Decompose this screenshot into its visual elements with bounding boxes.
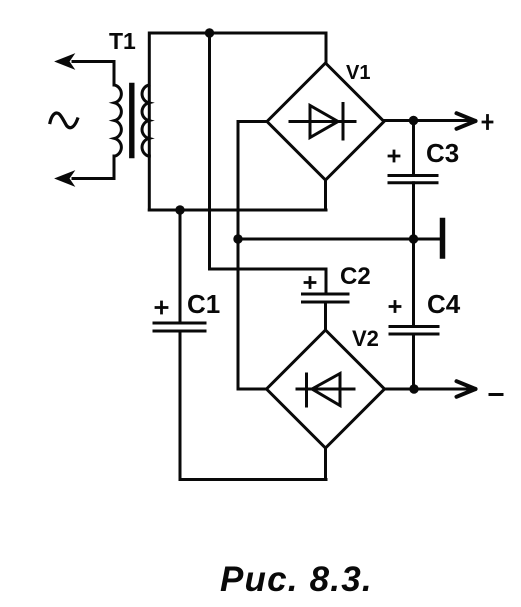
wire C1 to bottom rail xyxy=(180,331,326,480)
C1 polarity plus xyxy=(156,302,167,313)
wire primary top lead xyxy=(113,62,116,86)
svg-text:C4: C4 xyxy=(427,289,461,319)
wire C2 to V2 top vertex xyxy=(324,302,327,330)
capacitor C1 xyxy=(154,323,205,331)
wire C1 branch xyxy=(179,210,182,322)
C1 label xyxy=(187,289,220,319)
transformer T1 label xyxy=(109,28,136,54)
node junction secondary bottom xyxy=(175,205,184,214)
wire mid rail to C4 xyxy=(412,239,415,325)
transformer T1 secondary winding xyxy=(142,85,149,156)
svg-text:Рис. 8.3.: Рис. 8.3. xyxy=(220,560,373,599)
diode inside V1 xyxy=(290,104,355,140)
wire V2 bottom stem xyxy=(324,448,327,480)
arrow minus output xyxy=(457,381,476,397)
C4 polarity plus xyxy=(390,302,400,312)
ground symbol xyxy=(440,221,446,257)
wire V1 bottom stem xyxy=(324,180,327,210)
svg-text:C1: C1 xyxy=(187,289,220,319)
C3 label xyxy=(426,138,459,168)
svg-text:C2: C2 xyxy=(340,263,371,290)
bridge rectifier V2 diamond xyxy=(267,330,385,448)
svg-text:V1: V1 xyxy=(346,62,370,84)
capacitor C2 xyxy=(303,294,349,302)
mid rail wire xyxy=(238,238,439,241)
plus output label xyxy=(483,116,492,129)
wire V2 output to minus terminal xyxy=(385,388,475,391)
node junction V1 output xyxy=(409,116,418,125)
V2 label xyxy=(352,326,379,351)
arrow plus output xyxy=(457,113,476,129)
capacitor C4 xyxy=(390,327,438,335)
node junction top rail xyxy=(205,28,214,37)
wire C4 to V2 output node xyxy=(412,334,415,389)
minus output label xyxy=(490,393,502,396)
C3 polarity plus xyxy=(389,151,399,161)
node junction mid rail left xyxy=(233,234,242,243)
node junction V2 output xyxy=(409,384,418,393)
wire primary bottom lead xyxy=(73,156,114,179)
C2 polarity plus xyxy=(305,278,315,288)
C2 label xyxy=(340,263,371,290)
wire node to C3 xyxy=(412,121,415,175)
bridge rectifier V1 diamond xyxy=(267,63,384,180)
C4 label xyxy=(427,289,461,319)
wire V1 output to plus terminal xyxy=(384,119,474,122)
wire V1 left vertex to left column xyxy=(238,122,267,390)
V1 label xyxy=(346,62,370,84)
capacitor C3 xyxy=(389,176,437,183)
diode inside V2 xyxy=(297,374,354,407)
svg-text:V2: V2 xyxy=(352,326,379,351)
wire secondary top to top rail xyxy=(149,33,326,156)
arrow primary bottom terminal xyxy=(56,171,75,186)
svg-text:C3: C3 xyxy=(426,138,459,168)
transformer T1 primary winding xyxy=(115,85,122,156)
wire secondary bottom rail xyxy=(149,209,326,212)
wire C3 to mid rail xyxy=(412,183,415,239)
node junction mid rail right xyxy=(409,234,418,243)
transformer T1 core xyxy=(129,86,134,156)
AC source symbol ~ xyxy=(50,113,78,128)
caption xyxy=(220,560,373,599)
arrow primary top terminal xyxy=(56,54,115,69)
wire branch from top rail node down to C2 feed xyxy=(210,33,327,293)
svg-text:T1: T1 xyxy=(109,28,136,54)
